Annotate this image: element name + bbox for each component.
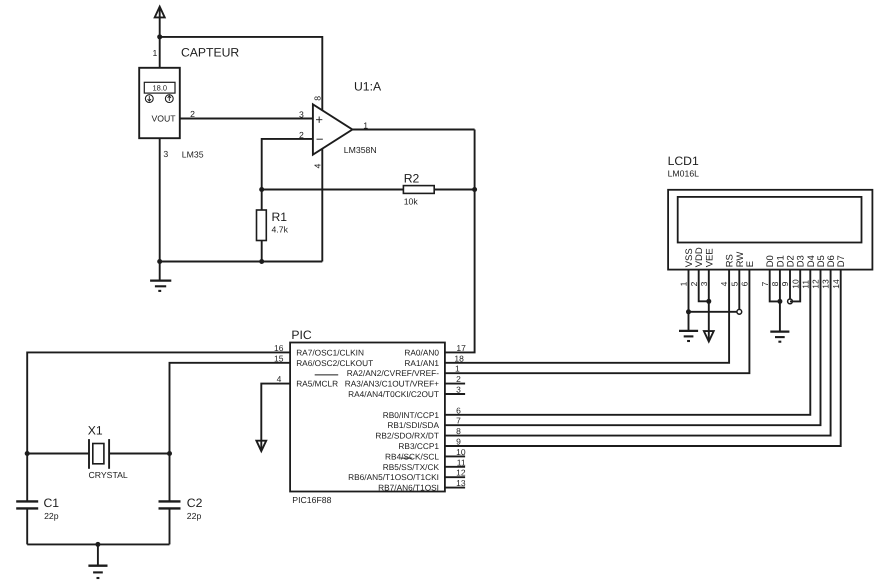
ground (LCD data lines): [770, 332, 789, 342]
sensor U? LM35 (CAPTEUR): [139, 68, 180, 138]
svg-text:4.7k: 4.7k: [272, 224, 289, 234]
svg-text:5: 5: [729, 281, 739, 286]
junction: bottom rail / ground: [95, 542, 100, 547]
crystal X1: [27, 439, 169, 469]
svg-text:7: 7: [760, 281, 770, 286]
junction: D0/D1: [777, 299, 782, 304]
wire: LCD pin 9 D2 down: [789, 270, 791, 302]
svg-text:RB7/AN6/T1OSI: RB7/AN6/T1OSI: [378, 483, 439, 493]
svg-text:8: 8: [770, 281, 780, 286]
svg-text:10: 10: [456, 447, 466, 457]
svg-text:LM016L: LM016L: [668, 168, 700, 178]
wire: LM35 VOUT to op-amp + input: [180, 118, 313, 120]
junction: X1 right / C2: [167, 451, 172, 456]
svg-text:13: 13: [821, 279, 831, 289]
wire: LM35 pin 3 down to ground rail: [159, 138, 161, 261]
svg-text:3: 3: [163, 149, 168, 159]
svg-text:1: 1: [455, 364, 460, 374]
svg-text:RB0/INT/CCP1: RB0/INT/CCP1: [383, 410, 440, 420]
svg-text:−: −: [316, 131, 324, 146]
wire: op-amp pin 4 down to ground rail: [321, 149, 323, 262]
stub: PIC pin 11: [445, 466, 465, 468]
svg-text:E: E: [745, 261, 756, 267]
svg-text:8: 8: [456, 426, 461, 436]
wire: LCD pin 8 D1 down to ground: [779, 270, 781, 332]
svg-text:10k: 10k: [404, 197, 419, 207]
wire: PIC pin 4 (MCLR): [261, 384, 290, 450]
wire: op-amp output: [352, 129, 474, 131]
wire: LM35 pin 1: [159, 37, 161, 68]
svg-text:RA0/AN0: RA0/AN0: [404, 347, 439, 357]
microcontroller PIC (PIC16F88): [290, 343, 445, 492]
overline SS: [401, 457, 412, 459]
resistor R1: [257, 190, 267, 262]
svg-text:18: 18: [454, 353, 464, 363]
svg-text:1: 1: [152, 48, 157, 58]
svg-text:12: 12: [456, 468, 466, 478]
svg-text:RB1/SDI/SDA: RB1/SDI/SDA: [387, 420, 439, 430]
ground (crystal caps): [88, 544, 107, 578]
wire: PIC pin 15 to C2/X1 node: [170, 363, 291, 502]
stub: PIC pin 13: [445, 487, 465, 489]
wire: output vertical down to PIC pin 17: [445, 130, 475, 353]
svg-text:CRYSTAL: CRYSTAL: [89, 470, 128, 480]
wire: bottom rail C1-C2: [27, 543, 169, 545]
stub: PIC pin 3: [445, 393, 465, 395]
svg-text:9: 9: [780, 281, 790, 286]
svg-text:18.0: 18.0: [152, 84, 167, 93]
svg-text:3: 3: [699, 281, 709, 286]
wire: LCD pin 1 VSS down to ground: [688, 270, 690, 331]
wire: PIC pin 7 to LCD D5: [445, 270, 821, 426]
junction: X1 left / C1: [25, 451, 30, 456]
svg-text:R1: R1: [272, 210, 288, 224]
svg-text:6: 6: [740, 281, 750, 286]
svg-text:2: 2: [456, 374, 461, 384]
op-amp U1:A: [313, 104, 353, 154]
svg-text:C1: C1: [44, 496, 60, 510]
stub: PIC pin 10: [445, 455, 465, 457]
svg-text:9: 9: [456, 437, 461, 447]
svg-text:LM35: LM35: [182, 149, 204, 159]
junction ring: D2/D3: [788, 299, 793, 304]
wire: LCD pin 10 D3 bend to D2: [790, 270, 800, 302]
junction: R1 bottom: [259, 259, 264, 264]
junction: +V node: [157, 34, 162, 39]
svg-text:RB6/AN5/T1OSO/T1CKI: RB6/AN5/T1OSO/T1CKI: [348, 472, 439, 482]
wire: LCD pin 5 RW down to VSS rail: [738, 270, 740, 312]
svg-text:8: 8: [313, 96, 323, 101]
svg-text:RB2/SDO/RX/DT: RB2/SDO/RX/DT: [375, 431, 439, 441]
svg-text:D7: D7: [836, 255, 847, 267]
svg-text:U1:A: U1:A: [354, 79, 382, 93]
svg-text:16: 16: [274, 343, 284, 353]
wire: op-amp - input from feedback node: [262, 139, 313, 190]
wire: LCD pin 7 D0 bend to D1: [770, 270, 780, 302]
capacitor C1: [16, 501, 38, 544]
svg-text:4: 4: [277, 374, 282, 384]
power +V arrow (top): [155, 7, 165, 37]
svg-text:11: 11: [457, 457, 466, 467]
svg-text:RB3/CCP1: RB3/CCP1: [398, 441, 439, 451]
junction: R2 / feedback vertical: [472, 187, 477, 192]
svg-text:+: +: [315, 112, 323, 127]
svg-text:CAPTEUR: CAPTEUR: [181, 45, 239, 59]
svg-text:LM358N: LM358N: [344, 145, 377, 155]
svg-text:C2: C2: [187, 496, 203, 510]
svg-text:RB5/SS/TX/CK: RB5/SS/TX/CK: [383, 462, 440, 472]
svg-text:22p: 22p: [187, 511, 202, 521]
svg-text:PIC: PIC: [291, 328, 312, 342]
svg-text:3: 3: [299, 109, 304, 119]
svg-text:6: 6: [456, 405, 461, 415]
svg-text:X1: X1: [88, 424, 103, 438]
wire: PIC pin 16 to C1/X1 node: [27, 352, 290, 501]
resistor R2: [403, 186, 474, 194]
junction: R1 top: [259, 187, 264, 192]
svg-text:3: 3: [456, 385, 461, 395]
svg-text:VEE: VEE: [704, 248, 715, 267]
wire: PIC pin 18 to LCD RS: [445, 270, 729, 363]
ground (below LM35): [150, 262, 171, 291]
svg-text:RA6/OSC2/CLKOUT: RA6/OSC2/CLKOUT: [296, 358, 373, 368]
stub: PIC pin 12: [445, 476, 465, 478]
wire: feedback rail to R2: [262, 189, 404, 191]
svg-text:11: 11: [800, 280, 810, 289]
svg-text:14: 14: [831, 279, 841, 289]
svg-text:1: 1: [679, 281, 689, 286]
display LCD1 (LM016L): [668, 190, 872, 270]
svg-text:RA7/OSC1/CLKIN: RA7/OSC1/CLKIN: [296, 347, 364, 357]
wire: PIC pin 8 to LCD D6: [445, 270, 831, 436]
wire: LCD pin 2 VDD bend to VEE: [699, 270, 709, 302]
svg-text:RA1/AN1: RA1/AN1: [404, 358, 439, 368]
junction: VDD/VEE: [706, 299, 711, 304]
wire: PIC pin 6 to LCD D4: [445, 270, 810, 415]
svg-text:PIC16F88: PIC16F88: [292, 495, 331, 505]
svg-text:R2: R2: [404, 171, 420, 185]
svg-text:RA3/AN3/C1OUT/VREF+: RA3/AN3/C1OUT/VREF+: [345, 379, 439, 389]
wire: +V rail to op-amp pin 8: [160, 37, 323, 110]
svg-text:13: 13: [456, 478, 466, 488]
wire: PIC pin 1 to LCD E: [445, 270, 750, 374]
svg-text:15: 15: [274, 353, 284, 363]
svg-text:22p: 22p: [44, 511, 59, 521]
power arrow down (MCLR net): [256, 441, 266, 451]
wire: PIC pin 9 to LCD D7: [445, 270, 841, 446]
wire: LCD pin 3 VEE down to power arrow: [708, 270, 710, 341]
svg-text:LCD1: LCD1: [668, 154, 699, 168]
svg-text:12: 12: [811, 279, 821, 289]
junction: VSS rail: [686, 309, 691, 314]
capacitor C2: [159, 501, 181, 544]
junction ring: RW/VSS rail: [737, 309, 742, 314]
svg-text:17: 17: [456, 343, 466, 353]
junction: LM35 pin3 / ground rail: [157, 259, 162, 264]
power arrow down (VEE net): [704, 331, 714, 341]
svg-text:RA4/AN4/T0CKI/C2OUT: RA4/AN4/T0CKI/C2OUT: [348, 389, 439, 399]
svg-text:RA2/AN2/CVREF/VREF-: RA2/AN2/CVREF/VREF-: [347, 368, 439, 378]
svg-text:RA5/MCLR: RA5/MCLR: [296, 379, 338, 389]
svg-text:10: 10: [790, 279, 800, 289]
svg-text:7: 7: [456, 416, 461, 426]
svg-text:4: 4: [719, 281, 729, 286]
svg-text:2: 2: [190, 109, 195, 119]
svg-text:2: 2: [689, 281, 699, 286]
ground (LCD VSS): [679, 331, 698, 341]
stub: PIC pin 2: [445, 383, 465, 385]
svg-text:RB4/SCK/SCL: RB4/SCK/SCL: [385, 451, 439, 461]
wire: ground rail: [160, 261, 323, 263]
svg-text:VOUT: VOUT: [151, 113, 176, 123]
overline MCLR: [315, 374, 339, 376]
svg-text:4: 4: [313, 164, 323, 169]
wire: VSS rail to RW: [689, 311, 740, 313]
